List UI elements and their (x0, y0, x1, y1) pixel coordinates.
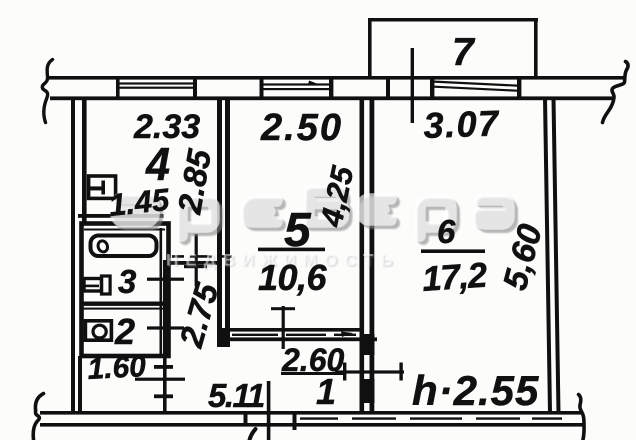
watermark letter p1 shadow (185, 204, 217, 239)
watermark letter e1 shadow (249, 204, 280, 225)
tick y279 (147, 278, 184, 281)
room5 bottom wall dashed middle (232, 334, 356, 336)
tick y367 (154, 365, 173, 369)
stove in room 4 (89, 176, 116, 198)
watermark letter a2 face (478, 200, 509, 224)
room4 bottom boundary (1.45 underline) (78, 214, 164, 218)
room5 bottom wall lower line (217, 337, 377, 341)
wall room5/room6 right line (370, 98, 375, 413)
left wall outer line (71, 98, 75, 413)
svg-text:7: 7 (452, 31, 476, 74)
bottom wall top line (40, 411, 582, 415)
bottom-right break squiggle (579, 395, 585, 440)
svg-text:h·2.55: h·2.55 (412, 367, 539, 414)
dim line 2.60 vertical (282, 306, 285, 349)
hall dim horizontal line (335, 370, 404, 373)
top wall bottom line (50, 96, 613, 100)
hall dim tick left (343, 363, 346, 381)
entry vertical line (267, 381, 271, 440)
right wall outer line (552, 98, 561, 413)
bathroom box inner bottom line (84, 354, 165, 356)
bottom wall middle dashed line (300, 417, 562, 419)
wall divider d (329, 76, 333, 100)
toilet tank (84, 279, 102, 292)
bath divider thick line (81, 302, 166, 306)
balcony 7 top edge (368, 18, 538, 22)
watermark letter e2 shadow (365, 202, 394, 223)
bottom wall tick 1 (244, 411, 248, 425)
wall room5/room6 junction fill upper (360, 334, 375, 355)
wall divider e (386, 76, 390, 100)
bathroom box inner right line (160, 228, 163, 354)
bottom wall tick 2 (293, 411, 297, 430)
wall divider b (193, 76, 197, 100)
svg-text:3.07: 3.07 (423, 102, 501, 146)
room5 bottom wall arrow (341, 332, 353, 338)
hall dim tick right (399, 363, 402, 381)
balcony 7 right edge (534, 18, 538, 77)
wall divider g (517, 76, 521, 100)
kitchen-bath lintel lower line (166, 261, 218, 265)
svg-text:5.11: 5.11 (208, 377, 264, 414)
wall divider f (430, 76, 434, 100)
tick 2.75 (184, 265, 207, 268)
window 3 lower pane line (434, 86, 517, 92)
fraction line room 5 (258, 248, 325, 252)
wall room5/room6 left line (360, 98, 365, 413)
underline 1.60 (135, 378, 185, 381)
dim line 2.75 (195, 234, 198, 286)
toilet bowl (102, 276, 111, 294)
svg-text:10,6: 10,6 (258, 257, 328, 298)
watermark letter v shadow (312, 194, 347, 225)
bathroom box inner top line (84, 229, 165, 231)
window 2 vent arrow (308, 81, 318, 85)
svg-text:6: 6 (437, 213, 456, 250)
wall divider c (260, 76, 264, 100)
window 2 lower pane line (263, 88, 330, 90)
tick y396 (154, 394, 173, 398)
svg-text:3: 3 (118, 263, 136, 300)
left wall inner line upper (82, 98, 87, 224)
wall room4/room5 right line (225, 98, 230, 347)
watermark letter p1 face (182, 201, 214, 236)
watermark letter a2 shadow (481, 203, 512, 227)
right wall inner line (543, 98, 552, 413)
bathroom box outer (82, 224, 169, 357)
top wall top line (48, 76, 624, 80)
washbasin box (85, 321, 111, 340)
left wall inner line lower (78, 356, 82, 413)
svg-text:2.50: 2.50 (260, 107, 343, 149)
tick y328 (147, 326, 184, 329)
top-right break squiggle (603, 62, 629, 123)
svg-text:1.60: 1.60 (87, 350, 147, 386)
watermark letter a1 shadow (119, 202, 157, 225)
svg-text:1.45: 1.45 (107, 182, 171, 223)
svg-text:2.60: 2.60 (281, 342, 344, 378)
top-left break squiggle (42, 60, 52, 123)
balcony 7 left edge (368, 18, 372, 77)
wall room5/room6 junction fill lower (360, 379, 375, 403)
bottom wall bottom line (40, 423, 585, 427)
tick 2.60 (271, 307, 295, 310)
window 1 lower pane line (119, 87, 194, 89)
watermark (116, 191, 512, 271)
window 3 upper pane line (434, 81, 517, 87)
toilet tank inner line (84, 285, 99, 288)
bottom-left break squiggle (33, 394, 43, 440)
kitchen-bath lintel dashed upper line (172, 255, 232, 258)
svg-text:17,2: 17,2 (421, 255, 489, 298)
svg-text:2: 2 (114, 311, 135, 352)
window 2 upper pane line (263, 83, 330, 85)
watermark letter e1 face (246, 201, 277, 222)
stove inner horizontal (87, 186, 104, 190)
dim line bath right (163, 260, 167, 412)
svg-text:5: 5 (284, 204, 312, 257)
washbasin circle (93, 325, 106, 338)
underline 2.60 (281, 372, 345, 375)
room5 bottom wall junction fill (217, 328, 230, 347)
bathtub (91, 236, 157, 257)
watermark letter v face (309, 191, 344, 222)
stove inner tick (101, 181, 105, 195)
bath divider thin line (81, 308, 166, 310)
window 1 upper pane line (119, 82, 194, 84)
watermark letter e2 face (362, 199, 391, 220)
fraction line room 6 (421, 249, 485, 253)
balcony door mark (411, 48, 414, 123)
watermark letter p2 face (420, 201, 451, 236)
room5 bottom wall upper line (217, 328, 362, 332)
watermark letter a1 face (116, 199, 154, 222)
wall room4/room5 left line (217, 98, 222, 347)
svg-text:4,25: 4,25 (313, 162, 360, 230)
stroke below wall (250, 429, 256, 440)
watermark letter p2 shadow (423, 204, 454, 239)
wall divider a (116, 76, 120, 100)
bathtub drain (97, 240, 109, 254)
